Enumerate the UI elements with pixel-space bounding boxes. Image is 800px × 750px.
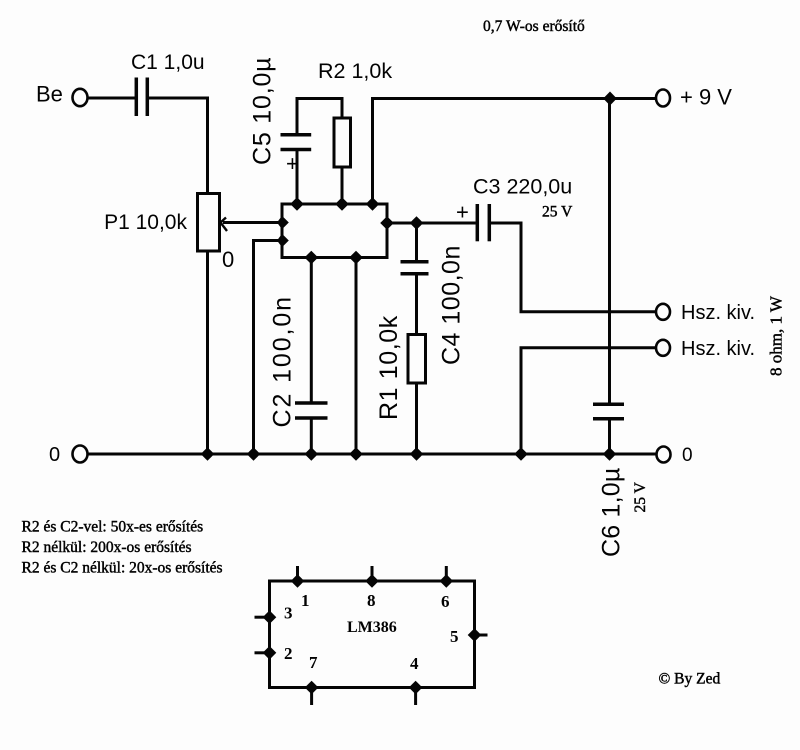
svg-text:LM386: LM386 [347, 619, 397, 636]
svg-text:C6 1,0µ: C6 1,0µ [598, 468, 626, 557]
svg-text:Hsz. kiv.: Hsz. kiv. [681, 302, 755, 324]
svg-text:8 ohm, 1 W: 8 ohm, 1 W [767, 295, 786, 376]
svg-text:25 V: 25 V [542, 204, 573, 221]
svg-text:Hsz. kiv.: Hsz. kiv. [681, 338, 755, 360]
svg-text:3: 3 [284, 604, 293, 623]
svg-text:R2 és C2-vel: 50x-es erősítés: R2 és C2-vel: 50x-es erősítés [22, 519, 204, 536]
svg-text:© By Zed: © By Zed [659, 671, 721, 688]
svg-text:7: 7 [309, 653, 318, 672]
svg-text:0: 0 [222, 247, 234, 272]
svg-text:+: + [286, 151, 299, 176]
svg-text:C2 100,0n: C2 100,0n [269, 295, 297, 427]
svg-text:8: 8 [367, 591, 376, 610]
svg-text:+: + [456, 200, 469, 225]
svg-text:0: 0 [682, 445, 693, 466]
svg-text:Be: Be [36, 82, 63, 107]
svg-text:1: 1 [301, 591, 310, 610]
svg-text:+ 9 V: + 9 V [680, 85, 732, 110]
svg-text:C3 220,0u: C3 220,0u [473, 175, 572, 199]
svg-text:R2 1,0k: R2 1,0k [318, 59, 392, 83]
svg-text:R1 10,0k: R1 10,0k [375, 315, 403, 420]
svg-text:R2 és C2 nélkül: 20x-os erősít: R2 és C2 nélkül: 20x-os erősítés [22, 560, 223, 577]
svg-text:0: 0 [49, 444, 60, 466]
svg-text:4: 4 [410, 654, 419, 673]
svg-text:6: 6 [441, 592, 450, 611]
svg-text:R2 nélkül: 200x-os erősítés: R2 nélkül: 200x-os erősítés [22, 539, 192, 556]
svg-text:2: 2 [284, 644, 293, 663]
svg-text:C1 1,0u: C1 1,0u [131, 51, 205, 74]
svg-text:C4 100,0n: C4 100,0n [438, 245, 466, 365]
svg-text:C5 10,0µ: C5 10,0µ [249, 57, 277, 165]
svg-text:5: 5 [450, 627, 459, 646]
svg-text:P1 10,0k: P1 10,0k [104, 211, 187, 234]
svg-text:0,7 W-os erősítő: 0,7 W-os erősítő [483, 18, 585, 35]
svg-text:25 V: 25 V [632, 481, 649, 512]
